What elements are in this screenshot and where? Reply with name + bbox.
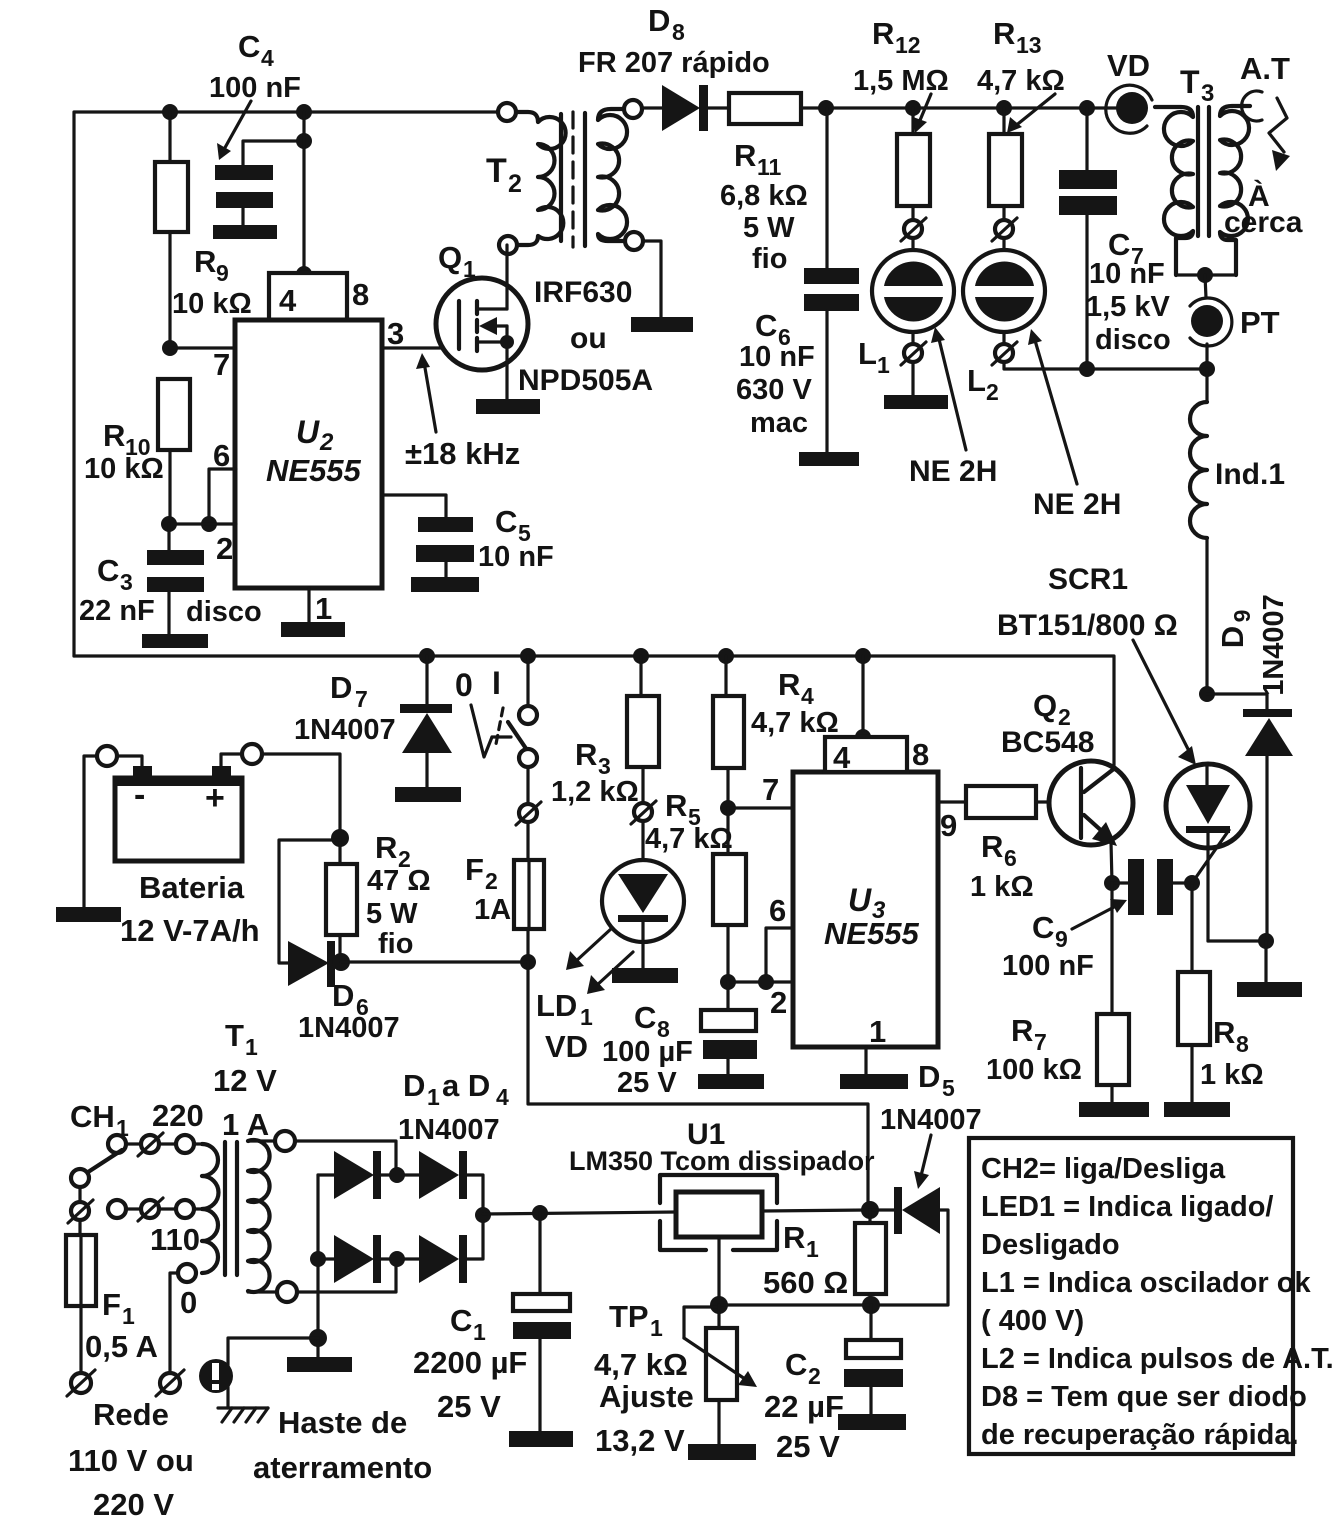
wire D9 to ground (1264, 941, 1267, 982)
node bus-R4 (718, 648, 734, 664)
svg-text:4,7 kΩ: 4,7 kΩ (645, 823, 733, 855)
diode D9 (1207, 594, 1293, 941)
resistor R10 (84, 379, 190, 524)
ground C4 (213, 225, 277, 239)
terminal CH1 slash mid (138, 1198, 163, 1221)
transformer T2 (486, 100, 643, 254)
potentiometer TP1 (594, 1299, 757, 1458)
terminal T1 tap0 (178, 1264, 196, 1282)
svg-text:3: 3 (1201, 80, 1214, 107)
diode D8 (578, 3, 770, 131)
svg-text:11: 11 (757, 154, 782, 180)
fuse F1 (66, 1220, 158, 1374)
resistor R6 (966, 786, 1077, 903)
node bridge left (310, 1251, 326, 1267)
svg-text:1: 1 (580, 1004, 593, 1030)
wire bridge output (483, 1212, 676, 1214)
node pin6-2 U3 (758, 974, 774, 990)
terminal R3-LED (631, 801, 656, 824)
svg-text:de recuperação rápida.: de recuperação rápida. (981, 1419, 1299, 1451)
lamp L1 NE-2H (858, 238, 954, 378)
svg-text:7: 7 (1034, 1029, 1047, 1055)
svg-text:+: + (205, 779, 225, 817)
svg-text:4,7 kΩ: 4,7 kΩ (977, 65, 1065, 97)
svg-text:C: C (1032, 910, 1054, 945)
svg-text:C: C (238, 29, 260, 64)
svg-text:CH2= liga/Desliga: CH2= liga/Desliga (981, 1153, 1226, 1185)
svg-text:10 nF: 10 nF (739, 341, 815, 373)
node pin2-6 (201, 516, 217, 532)
svg-text:R: R (103, 418, 125, 453)
LED LD1 (536, 821, 684, 1064)
svg-text:4: 4 (833, 740, 851, 775)
svg-text:VD: VD (1107, 48, 1150, 83)
lamp L2 NE-2H (963, 238, 1045, 405)
node pin4/8 U3 (855, 729, 871, 745)
capacitor C2 (764, 1305, 903, 1464)
svg-text:1N4007: 1N4007 (298, 1012, 400, 1044)
svg-text:1: 1 (122, 1303, 135, 1329)
wire PT to node (1205, 344, 1208, 369)
ground C5 (411, 577, 479, 592)
svg-text:6,8 kΩ: 6,8 kΩ (720, 180, 808, 212)
svg-text:5: 5 (942, 1075, 955, 1101)
wire pin 7 (170, 346, 235, 349)
terminal PT (1190, 298, 1280, 346)
svg-text:T: T (1180, 64, 1200, 100)
ground SCR-D9 (1237, 982, 1302, 997)
resistor R12 (853, 16, 949, 220)
svg-text:220 V: 220 V (93, 1487, 174, 1522)
terminal CH1 lever (68, 1200, 93, 1223)
svg-text:T: T (225, 1018, 244, 1053)
svg-text:BC548: BC548 (1001, 726, 1094, 759)
svg-text:C: C (634, 1000, 656, 1035)
svg-text:0,5 A: 0,5 A (85, 1329, 158, 1364)
node pin7 (162, 340, 178, 356)
svg-text:1N4007: 1N4007 (294, 714, 396, 746)
svg-text:1N4007: 1N4007 (1258, 594, 1290, 696)
ground R8 (1164, 1102, 1230, 1117)
svg-text:-: - (134, 776, 145, 814)
svg-text:Q: Q (1033, 688, 1057, 723)
svg-text:10 kΩ: 10 kΩ (84, 453, 164, 485)
transistor Q1 MOSFET (436, 240, 653, 399)
wire pin 6 jog U3 (766, 928, 793, 982)
svg-text:1: 1 (427, 1084, 440, 1110)
ground battery (56, 907, 121, 922)
diode D6 (279, 840, 400, 1044)
terminal F1 bottom (67, 1370, 95, 1396)
capacitor C5 (382, 495, 554, 577)
wire T2 sec bottom to ground (643, 241, 661, 317)
svg-text:R: R (783, 1220, 805, 1255)
svg-text:CH: CH (70, 1099, 115, 1134)
wire earth stake (228, 1338, 318, 1408)
svg-text:8: 8 (912, 737, 929, 772)
svg-text:NE555: NE555 (824, 916, 920, 951)
svg-text:L1 = Indica oscilador ok: L1 = Indica oscilador ok (981, 1267, 1311, 1299)
svg-text:1 kΩ: 1 kΩ (1200, 1059, 1264, 1091)
resistor R3 (551, 656, 659, 808)
pin 4 8 box U2 (269, 273, 369, 320)
node rail-C4 (296, 104, 312, 120)
svg-text:R: R (1213, 1015, 1235, 1050)
wire adj rail (719, 1303, 871, 1306)
svg-text:R: R (993, 16, 1015, 51)
wire L1 ground (911, 362, 914, 395)
svg-text:5 W: 5 W (743, 212, 795, 244)
ground C6 (799, 452, 859, 466)
svg-text:fio: fio (378, 928, 413, 960)
svg-text:R: R (981, 829, 1003, 864)
node R10-C3 (161, 516, 177, 532)
svg-text:F: F (102, 1287, 121, 1322)
wire bus to pin4/8 (861, 656, 864, 737)
label 18kHz (405, 353, 520, 471)
ground D7 (395, 787, 461, 802)
resistor R8 (1178, 883, 1264, 1102)
terminal battery plus (242, 744, 262, 764)
svg-text:220: 220 (152, 1098, 204, 1133)
svg-text:cerca: cerca (1224, 206, 1303, 239)
wire sec top to bridge (295, 1141, 396, 1175)
svg-text:L: L (967, 363, 986, 398)
node C1 (532, 1205, 548, 1221)
capacitor C6 (736, 108, 859, 452)
svg-text:9: 9 (1055, 926, 1068, 952)
svg-text:R: R (665, 788, 687, 823)
svg-text:5 W: 5 W (366, 898, 418, 930)
svg-text:100 µF: 100 µF (602, 1036, 693, 1068)
svg-text:110: 110 (150, 1222, 200, 1257)
wire top supply rail (74, 112, 507, 656)
svg-text:6: 6 (769, 893, 786, 928)
wire C4 node to pin4/8 (302, 112, 305, 273)
svg-text:BT151/800 Ω: BT151/800 Ω (997, 609, 1178, 642)
legend box (969, 1138, 1334, 1454)
svg-text:1: 1 (869, 1014, 886, 1049)
svg-text:NE 2H: NE 2H (1033, 488, 1121, 521)
diode D7 (294, 656, 452, 787)
node rail-R13 (996, 100, 1012, 116)
svg-text:NPD505A: NPD505A (518, 364, 653, 397)
svg-text:R: R (1011, 1013, 1033, 1048)
svg-text:A.T: A.T (1240, 51, 1290, 86)
terminal CH1 slash top (138, 1133, 163, 1156)
terminal L1-gnd (901, 342, 926, 365)
svg-text:C: C (1108, 227, 1130, 262)
ground C3 (142, 634, 208, 648)
svg-text:R: R (872, 16, 894, 51)
svg-text:D: D (918, 1059, 940, 1094)
wire SCR cathode (1208, 939, 1266, 942)
svg-text:25 V: 25 V (776, 1429, 840, 1464)
svg-text:1N4007: 1N4007 (880, 1104, 982, 1136)
svg-text:9: 9 (216, 260, 229, 286)
terminal T1 sec top (275, 1131, 295, 1151)
svg-text:1: 1 (877, 352, 890, 378)
node C9-R8-gate (1184, 875, 1200, 891)
svg-text:8: 8 (1236, 1031, 1249, 1057)
transistor Q2 BC548 (1001, 688, 1133, 883)
svg-text:4: 4 (801, 683, 814, 709)
node bridge top (389, 1167, 405, 1183)
op-amp U2 NE555 (235, 320, 382, 588)
svg-text:12 V-7A/h: 12 V-7A/h (120, 913, 260, 948)
svg-text:FR 207 rápido: FR 207 rápido (578, 47, 770, 79)
node bridge bottom (389, 1251, 405, 1267)
node F2 junction (520, 954, 536, 970)
terminal R13-L2 (992, 218, 1017, 241)
resistor R7 (986, 883, 1129, 1102)
inductor Ind.1 (1190, 369, 1285, 694)
wire T3 bottom to PT (1205, 275, 1206, 298)
wire F2 node down to U1 rail (528, 962, 868, 1210)
node ground junction (309, 1329, 327, 1347)
node R1-C2 (862, 1296, 880, 1314)
svg-text:( 400 V): ( 400 V) (981, 1305, 1084, 1337)
node U1 out D5 (861, 1201, 879, 1219)
svg-text:U: U (296, 414, 320, 450)
svg-text:22 nF: 22 nF (79, 595, 155, 627)
svg-text:4: 4 (496, 1084, 509, 1110)
terminal R12-L1 (901, 218, 926, 241)
ground C8 (698, 1074, 764, 1089)
svg-text:2: 2 (508, 170, 522, 198)
svg-text:PT: PT (1240, 305, 1280, 340)
switch CH1 (70, 1098, 204, 1218)
svg-text:C: C (97, 553, 119, 588)
earth symbol (218, 1408, 268, 1422)
terminal CH2-F2 (516, 802, 541, 825)
ground TP1 (688, 1444, 756, 1460)
warning symbol (199, 1359, 233, 1393)
svg-text:disco: disco (186, 596, 262, 628)
svg-text:R: R (375, 830, 397, 865)
transformer T3 (1155, 64, 1250, 275)
resistor R13 (977, 16, 1065, 220)
svg-text:10 kΩ: 10 kΩ (172, 288, 252, 320)
svg-text:8: 8 (352, 277, 369, 312)
svg-text:U: U (848, 882, 872, 918)
svg-text:7: 7 (213, 347, 230, 382)
node pin4/8 U2 (296, 266, 312, 282)
svg-text:1A: 1A (474, 894, 511, 926)
svg-text:Ajuste: Ajuste (599, 1379, 694, 1414)
svg-text:2200 µF: 2200 µF (413, 1345, 527, 1380)
node R4-pin7 (720, 800, 736, 816)
svg-text:Ind.1: Ind.1 (1215, 458, 1285, 491)
svg-text:TP: TP (609, 1299, 649, 1334)
regulator U1 LM350 (569, 1118, 875, 1305)
svg-text:Q: Q (438, 240, 462, 275)
svg-text:LED1 = Indica ligado/: LED1 = Indica ligado/ (981, 1191, 1273, 1223)
svg-text:D: D (648, 3, 670, 38)
resistor R9 (155, 112, 252, 348)
svg-text:10 nF: 10 nF (478, 541, 554, 573)
svg-text:1,5 kV: 1,5 kV (1086, 291, 1170, 323)
svg-text:aterramento: aterramento (253, 1450, 432, 1485)
ground LD1 (612, 968, 678, 983)
resistor R1 (763, 1210, 886, 1305)
capacitor C8 (602, 982, 757, 1099)
svg-text:C: C (785, 1347, 807, 1382)
svg-text:mac: mac (750, 407, 808, 439)
svg-text:0: 0 (180, 1285, 197, 1320)
ground Q1 source (476, 399, 540, 414)
svg-text:D: D (403, 1068, 425, 1103)
capacitor C3 (79, 524, 262, 634)
svg-text:1,5 MΩ: 1,5 MΩ (853, 65, 949, 97)
svg-text:630 V: 630 V (736, 374, 812, 406)
svg-text:100 kΩ: 100 kΩ (986, 1054, 1082, 1086)
switch CH2 (455, 656, 537, 804)
ground pin1 U2 (281, 622, 345, 637)
node C7-L2 (1079, 361, 1095, 377)
node rail-C6 (818, 100, 834, 116)
svg-text:1: 1 (315, 591, 332, 626)
node D6-R2 (332, 953, 350, 971)
svg-text:IRF630: IRF630 (534, 276, 632, 309)
svg-text:disco: disco (1095, 324, 1171, 356)
wire pin 1 U3 (864, 1047, 867, 1074)
svg-text:1: 1 (806, 1236, 819, 1262)
svg-text:1: 1 (245, 1034, 258, 1060)
wire pin 6 jog (209, 469, 236, 524)
svg-text:6: 6 (1004, 845, 1017, 871)
node bus-U3supply (855, 648, 871, 664)
node PT-Ind1 (1199, 361, 1215, 377)
wire sec bottom to bridge (297, 1259, 396, 1292)
svg-text:1: 1 (650, 1315, 663, 1341)
svg-text:Bateria: Bateria (139, 870, 245, 905)
transformer T1 (150, 1140, 277, 1320)
svg-text:a D: a D (442, 1068, 490, 1103)
svg-text:100 nF: 100 nF (1002, 950, 1094, 982)
svg-text:4: 4 (279, 283, 297, 318)
svg-text:1: 1 (463, 256, 476, 282)
svg-text:L: L (858, 336, 877, 371)
svg-text:12 V: 12 V (213, 1063, 277, 1098)
svg-text:VD: VD (545, 1029, 588, 1064)
svg-text:25 V: 25 V (617, 1067, 677, 1099)
terminal tap0 bottom (156, 1370, 184, 1396)
svg-text:22 µF: 22 µF (764, 1389, 844, 1424)
svg-text:ou: ou (570, 322, 607, 355)
svg-text:100 nF: 100 nF (209, 72, 301, 104)
svg-text:LD: LD (536, 988, 577, 1023)
svg-text:10 nF: 10 nF (1089, 258, 1165, 290)
capacitor C4 (209, 29, 312, 225)
svg-text:3: 3 (120, 569, 133, 595)
node bridge output (475, 1207, 491, 1223)
svg-text:±18 kHz: ±18 kHz (405, 436, 520, 471)
svg-text:1 kΩ: 1 kΩ (970, 871, 1034, 903)
wire U3 out to R6 (938, 800, 966, 803)
svg-text:D: D (330, 670, 352, 705)
svg-text:2: 2 (319, 429, 334, 456)
svg-text:LM350 Tcom dissipador: LM350 Tcom dissipador (569, 1146, 875, 1176)
wire L2 to C7 line (1004, 362, 1207, 369)
node bus-D7 (419, 648, 435, 664)
resistor R4 (713, 656, 839, 808)
svg-text:R: R (194, 244, 216, 279)
svg-text:8: 8 (672, 19, 685, 45)
svg-text:SCR1: SCR1 (1048, 563, 1128, 596)
svg-text:D: D (1215, 626, 1250, 648)
wire battery minus to ground (84, 756, 142, 907)
svg-text:13,2 V: 13,2 V (595, 1423, 685, 1458)
ground bridge (287, 1338, 352, 1372)
svg-text:12: 12 (895, 32, 921, 58)
svg-text:R: R (778, 667, 800, 702)
svg-text:F: F (465, 852, 484, 887)
svg-text:NE 2H: NE 2H (909, 455, 997, 488)
svg-text:R: R (575, 737, 597, 772)
svg-text:Desligado: Desligado (981, 1229, 1120, 1261)
svg-text:2: 2 (770, 985, 787, 1020)
ground T2 secondary (631, 317, 693, 332)
ground pin1 U3 (840, 1074, 908, 1089)
node rail-R9 (162, 104, 178, 120)
node R2 top (331, 829, 349, 847)
wire output rail (801, 106, 1117, 109)
node Ind1-D9 (1199, 686, 1215, 702)
terminal VD (1106, 48, 1152, 133)
svg-text:4,7 kΩ: 4,7 kΩ (751, 707, 839, 739)
wire pin 3 (382, 346, 459, 349)
ground C2 (838, 1414, 906, 1430)
bridge rectifier D1-D4 (318, 1151, 483, 1338)
node R5-C8 (720, 974, 736, 990)
svg-text:1N4007: 1N4007 (398, 1114, 500, 1146)
wire battery plus (221, 754, 340, 838)
svg-text:C: C (450, 1303, 472, 1338)
svg-text:R: R (734, 138, 756, 173)
label NE 2H L1 (909, 327, 997, 488)
node Q2 emitter (1104, 875, 1120, 891)
node T3 bottom (1197, 267, 1213, 283)
svg-text:Haste de: Haste de (278, 1405, 407, 1440)
svg-text:7: 7 (355, 686, 368, 712)
terminal A.T fence (1224, 51, 1303, 239)
terminal T1 sec bottom (277, 1282, 297, 1302)
resistor R11 (720, 93, 808, 275)
svg-text:3: 3 (387, 316, 404, 351)
wire pin 2 U3 (728, 980, 793, 983)
pin 4 8 box U3 (825, 737, 929, 775)
svg-text:C: C (495, 504, 517, 539)
svg-text:25 V: 25 V (437, 1389, 501, 1424)
diode D5 (870, 1104, 982, 1305)
resistor R5 (713, 808, 746, 982)
capacitor C9 (1002, 859, 1192, 982)
resistor R2 (326, 830, 431, 962)
svg-text:I: I (492, 665, 501, 701)
node rail-R12 (905, 100, 921, 116)
node bus-R3 (633, 648, 649, 664)
op-amp U3 NE555 (793, 772, 938, 1047)
svg-text:1,2 kΩ: 1,2 kΩ (551, 776, 639, 808)
svg-text:47 Ω: 47 Ω (367, 865, 431, 897)
node bus-CH2 (520, 648, 536, 664)
wire pin 1 U2 (307, 588, 310, 622)
svg-text:1 A: 1 A (222, 1107, 269, 1142)
svg-text:9: 9 (1229, 610, 1255, 623)
wire pin 7 U3 (728, 806, 793, 809)
svg-text:L2 = Indica pulsos de A.T.: L2 = Indica pulsos de A.T. (981, 1343, 1334, 1375)
